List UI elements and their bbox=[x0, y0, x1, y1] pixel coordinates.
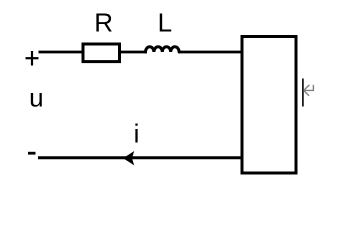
terminal + bbox=[26, 51, 39, 66]
wire top-left bbox=[39, 51, 84, 54]
inductor L bbox=[146, 47, 180, 52]
svg-text:L: L bbox=[158, 8, 172, 38]
paragraph mark (carriage return symbol) bbox=[304, 85, 314, 96]
resistor R bbox=[83, 44, 120, 62]
load block bbox=[242, 37, 296, 174]
current arrow i bbox=[123, 151, 134, 165]
svg-text:u: u bbox=[29, 82, 43, 112]
text cursor bbox=[302, 79, 304, 107]
svg-text:i: i bbox=[134, 119, 140, 149]
wire bottom bbox=[38, 156, 243, 159]
svg-text:R: R bbox=[94, 8, 113, 38]
wire top-right bbox=[179, 51, 243, 54]
wire R-L bbox=[121, 51, 147, 54]
terminal - bbox=[28, 152, 36, 155]
